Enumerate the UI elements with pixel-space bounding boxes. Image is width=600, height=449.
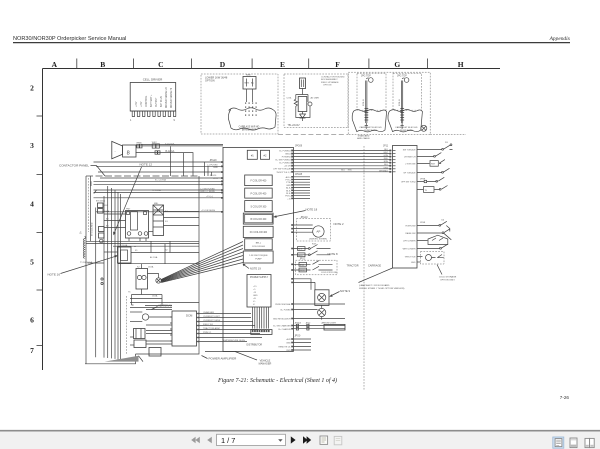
contactor panel leader line	[91, 166, 106, 176]
switch S8 row (raise)	[417, 229, 451, 240]
panel top nested edge with bevel	[91, 181, 97, 193]
toolbar next-view icon (disabled)	[334, 436, 342, 444]
terminal symbol right of option G	[421, 125, 427, 131]
relay block K1 (note 16 target)	[118, 247, 132, 263]
svg-text:FC COIL DR 400: FC COIL DR 400	[250, 232, 268, 234]
svg-text:GND: GND	[213, 167, 218, 169]
heater leader	[152, 307, 158, 310]
svg-text:GND: GND	[286, 185, 291, 187]
svg-text:T2 16GA: T2 16GA	[152, 189, 161, 192]
svg-text:GRN: GRN	[300, 270, 305, 272]
svg-text:OFF SW TORQ: OFF SW TORQ	[401, 181, 416, 183]
svg-text:B+ FUSED3: B+ FUSED3	[279, 163, 291, 165]
driver module A2	[261, 150, 270, 159]
svg-text:HORN SW: HORN SW	[405, 225, 415, 227]
carriage interface box JP11	[393, 146, 418, 269]
toolbar page-number box	[217, 434, 286, 445]
grid column ticks	[77, 59, 428, 69]
grid frame top line	[43, 68, 501, 70]
svg-text:POWER2: POWER2	[282, 157, 292, 159]
connector on lower horn wire	[155, 151, 160, 154]
harness wire labels near card	[152, 165, 219, 213]
svg-text:COIL: COIL	[287, 98, 293, 100]
svg-text:FIELD W1: FIELD W1	[203, 324, 214, 326]
carriage box internal pin labels (lower)	[403, 225, 417, 264]
heater resistor block 1	[134, 329, 146, 339]
cell driver pin name texts (rotated)	[136, 87, 173, 108]
terminal dots on bus	[101, 278, 103, 280]
power supply output wires down	[253, 307, 269, 329]
vehicle manager leader	[205, 352, 257, 361]
svg-text:B: B	[100, 60, 105, 69]
svg-text:OPTION: OPTION	[323, 85, 332, 87]
carriage box internal pin labels (upper)	[401, 149, 416, 183]
power supply module	[247, 275, 271, 308]
coil driver S	[245, 201, 273, 212]
option G cloud: carriage bumper assy	[388, 110, 422, 132]
svg-text:Figure 7-21: Schematic - Elec: Figure 7-21: Schematic - Electrical (She…	[217, 377, 337, 384]
svg-text:AND CABLE: AND CABLE	[357, 137, 370, 140]
note 18 leader arrow into coil driver B	[276, 211, 306, 217]
svg-text:16GA: 16GA	[152, 295, 158, 298]
option box: CONTACTOR HOUSED BOX ASSEMBLY (dashed)	[284, 74, 348, 128]
svg-text:GND REGULATOR: GND REGULATOR	[273, 317, 291, 320]
svg-text:BRN: BRN	[300, 265, 305, 267]
work light housing box	[315, 290, 329, 306]
toolbar previous-view icon	[320, 436, 328, 444]
coil driver B (double border)	[243, 213, 273, 224]
svg-text:OPTION: OPTION	[205, 80, 215, 83]
svg-text:ARROW LIGHT: ARROW LIGHT	[322, 321, 337, 324]
svg-text:+15 (+): +15 (+)	[206, 196, 213, 198]
heater motor circle	[142, 314, 148, 320]
toolbar prev-page button	[207, 437, 212, 443]
switch S4 row	[417, 168, 450, 172]
svg-text:BATTERY +: BATTERY +	[150, 94, 153, 107]
JPG08 pin squares	[291, 176, 293, 199]
svg-text:JPG10: JPG10	[210, 175, 217, 177]
cold storage leader	[437, 265, 442, 275]
svg-text:(SWIVEL STEER): (SWIVEL STEER)	[309, 239, 327, 241]
svg-text:+15 DR SENS: +15 DR SENS	[201, 210, 216, 212]
switch S1 row (sw torque)	[417, 145, 453, 149]
grid column letters	[52, 60, 464, 69]
outer dashed enclosure for MOL options F,G	[348, 72, 430, 135]
svg-text:KRB: KRB	[246, 75, 251, 77]
option G wire stem (double)	[402, 78, 405, 123]
svg-text:GND (+) SENS: GND (+) SENS	[200, 191, 215, 193]
svg-text:WHT/LOWER: WHT/LOWER	[403, 248, 416, 250]
switch S3 row with label box	[417, 160, 445, 164]
JPG09 pin squares on card edge	[291, 150, 293, 173]
svg-text:G: G	[394, 60, 400, 69]
wires down to work light	[293, 279, 315, 290]
panel-to-card harness wires	[94, 162, 224, 212]
svg-text:MANAGER: MANAGER	[259, 363, 272, 366]
svg-text:COLD STORAGE: COLD STORAGE	[439, 276, 457, 279]
svg-text:ORG: ORG	[383, 167, 388, 169]
svg-text:NOTE 19: NOTE 19	[250, 267, 261, 271]
option G switch circle	[404, 78, 409, 83]
svg-text:2H SWITCH: 2H SWITCH	[404, 156, 416, 158]
svg-text:JPG2: JPG2	[300, 259, 306, 261]
svg-text:16GA: 16GA	[148, 266, 154, 269]
svg-text:NEG: NEG	[245, 83, 250, 85]
left contactor terminals	[99, 227, 105, 232]
option F wire stem (double)	[366, 78, 369, 123]
svg-text:(LAMP ASST # R1 NO BOARD: (LAMP ASST # R1 NO BOARD	[359, 284, 390, 287]
svg-text:CELL DRIVER: CELL DRIVER	[143, 78, 163, 82]
svg-text:WHT: WHT	[383, 152, 388, 154]
svg-text:7: 7	[30, 346, 34, 355]
coil driver F	[245, 175, 273, 186]
option F switch circle	[369, 78, 374, 83]
JPG08 stub labels	[285, 176, 291, 201]
horn AP circle	[313, 226, 324, 237]
svg-text:3: 3	[30, 141, 34, 150]
contactor block PMT	[126, 211, 149, 239]
svg-text:HRN: HRN	[137, 143, 142, 145]
svg-text:600A: 600A	[104, 210, 110, 213]
svg-text:-: -	[115, 149, 116, 153]
svg-text:JPG20: JPG20	[210, 160, 218, 162]
JP11 pin squares at carriage box	[389, 150, 391, 173]
toolbar first-page button	[191, 437, 200, 443]
DCM output wires with labels	[197, 314, 263, 342]
svg-text:+72V: +72V	[136, 101, 138, 107]
relay block K2 with coils	[136, 269, 148, 290]
svg-text:B+ CHASSIS: B+ CHASSIS	[278, 328, 291, 331]
diode symbol in option box E	[300, 112, 306, 122]
svg-text:BLK: BLK	[298, 249, 303, 251]
wires KRB down to pins	[247, 89, 253, 102]
svg-text:B+ SW CHARGER: B+ SW CHARGER	[273, 325, 291, 328]
svg-text:F: F	[335, 60, 340, 69]
svg-text:NOTE 12: NOTE 12	[140, 163, 153, 167]
JP11 harness bundle tractor-to-carriage	[293, 151, 391, 172]
work light lamp L1	[318, 293, 326, 301]
gray harness wedge	[105, 356, 139, 362]
dashed option-area boundary under box E	[278, 133, 348, 135]
svg-text:(+) SW FUSED: (+) SW FUSED	[200, 188, 215, 190]
horn LS1 driver box	[123, 145, 136, 157]
svg-text:CARR ASST ELEV HD: CARR ASST ELEV HD	[359, 126, 382, 129]
heater area wires	[130, 299, 199, 346]
option F rotated text MOL B	[363, 99, 365, 106]
svg-text:WHT/BLK: WHT/BLK	[379, 170, 389, 172]
svg-text:AP: AP	[316, 230, 320, 234]
switch S5 row	[417, 177, 444, 181]
svg-text:F COIL DR 400: F COIL DR 400	[251, 181, 267, 183]
svg-text:PWM #1: PWM #1	[203, 332, 212, 334]
svg-text:GND: GND	[411, 262, 416, 264]
svg-text:THROTTLE 1,2: THROTTLE 1,2	[276, 172, 291, 174]
svg-text:OUTPUT: OUTPUT	[156, 97, 158, 107]
svg-text:CARR ASS W/R HD: CARR ASS W/R HD	[239, 126, 260, 129]
arrow light feed wires	[293, 326, 345, 329]
svg-text:WHT: WHT	[298, 255, 303, 257]
page-layout icon: single continuous (active, highlighted)	[553, 437, 564, 448]
coil driver BELL	[245, 239, 273, 250]
svg-text:BOX ASSEMBLY: BOX ASSEMBLY	[321, 78, 338, 81]
dashed service line in panel	[126, 296, 128, 354]
svg-text:BRN: BRN	[384, 161, 389, 163]
svg-text:+15V: +15V	[213, 178, 219, 180]
grid row ticks	[37, 116, 43, 346]
distributor output labels	[273, 303, 292, 331]
svg-text:RAISE SW: RAISE SW	[405, 232, 415, 235]
svg-text:HEATER/AN: HEATER/AN	[158, 305, 172, 308]
svg-text:TRACTION ARM: TRACTION ARM	[203, 327, 220, 330]
svg-text:SP TORQUE: SP TORQUE	[403, 172, 416, 174]
svg-text:CONTROL: CONTROL	[146, 95, 148, 107]
carriage box bottom-left leader	[359, 268, 393, 283]
svg-text:JPG09: JPG09	[295, 146, 303, 148]
label B+ vertical	[80, 230, 83, 234]
svg-text:RST: RST	[431, 164, 436, 166]
svg-text:SWIVEL STEER # TH HD OPTION VE: SWIVEL STEER # TH HD OPTION VERSION)	[359, 288, 405, 290]
svg-text:5: 5	[30, 258, 34, 267]
svg-text:BAT PLUS: BAT PLUS	[160, 96, 163, 107]
svg-text:7-26: 7-26	[560, 395, 570, 400]
note 16 leader arrow	[61, 256, 116, 273]
svg-text:2 STROKE: 2 STROKE	[405, 163, 416, 165]
toolbar top border	[0, 430, 600, 432]
svg-text:GRN: GRN	[384, 155, 389, 157]
svg-text:DISTRIBUTOR: DISTRIBUTOR	[247, 345, 263, 347]
option G rotated text MOL B	[399, 99, 401, 106]
svg-text:CONTACTOR HOUSED: CONTACTOR HOUSED	[321, 76, 345, 79]
svg-text:A: A	[52, 60, 58, 69]
svg-text:KST: KST	[312, 244, 317, 246]
svg-text:B+ FUSED2: B+ FUSED2	[279, 150, 291, 152]
throttle potentiometer	[417, 256, 423, 258]
svg-text:JPG10: JPG10	[301, 217, 309, 219]
svg-text:SW TORQUE: SW TORQUE	[403, 149, 416, 151]
heater wires to DCM	[145, 306, 172, 345]
svg-text:NOTE 18: NOTE 18	[306, 208, 318, 212]
toolbar page box dropdown caret	[278, 439, 282, 442]
swivel steer horn dashed box	[297, 219, 331, 242]
svg-text:BLK: BLK	[384, 149, 388, 151]
contactor panel inner dashed edge	[87, 178, 89, 232]
svg-text:JPG08: JPG08	[295, 174, 303, 176]
svg-text:LIFT SW TORQUE: LIFT SW TORQUE	[273, 169, 291, 171]
svg-text:BUMP ASST: BUMP ASST	[400, 129, 413, 132]
wedge to panel bottom tail	[139, 356, 144, 362]
toolbar next-page button	[291, 436, 296, 443]
vehicle manager card enclosure	[223, 147, 293, 351]
svg-text:AC: AC	[251, 82, 254, 85]
JP11 bundle mid labels	[341, 149, 389, 172]
note 19 leader arrow	[244, 265, 250, 269]
wire horn upper to card	[136, 145, 223, 147]
svg-text:TEMPERATURE SENS: TEMPERATURE SENS	[222, 339, 245, 342]
driver module A1	[247, 150, 257, 159]
svg-text:8: 8	[127, 151, 130, 157]
svg-text:BLU: BLU	[341, 170, 345, 172]
svg-text:JPG04: JPG04	[295, 322, 302, 324]
coil driver FC	[243, 226, 273, 237]
svg-text:1 / 7: 1 / 7	[221, 436, 235, 445]
tractor-carriage divider (dashed)	[363, 146, 365, 390]
svg-text:+15 DR: +15 DR	[284, 166, 292, 168]
svg-text:PGS+: PGS+	[285, 196, 291, 198]
arrow light assembly	[324, 324, 345, 330]
svg-text:4: 4	[30, 200, 34, 209]
contact element A1 CMR in option box E	[308, 99, 312, 110]
svg-text:PUMP: PUMP	[255, 258, 262, 260]
wire below K1	[118, 263, 200, 265]
option box E note text	[321, 76, 345, 87]
svg-text:PTS+: PTS+	[286, 180, 292, 182]
pin grid in option box D	[245, 103, 257, 116]
vertical bus wires in contactor panel	[96, 186, 121, 360]
svg-text:GND: GND	[253, 295, 258, 297]
svg-text:CARR ASST ELEV HD: CARR ASST ELEV HD	[395, 126, 418, 129]
svg-text:B+ FUSED: B+ FUSED	[281, 309, 292, 311]
toolbar background	[0, 431, 600, 449]
JPG08 stub wires	[293, 177, 310, 199]
svg-text:PTS-: PTS-	[286, 182, 291, 184]
option box: LOWER 1KW 36/48 OPTION (dashed)	[201, 74, 278, 134]
svg-text:GND: GND	[286, 342, 291, 344]
option F lower terminal	[365, 123, 368, 129]
switch S2 row	[417, 153, 441, 157]
distributor output wires	[293, 304, 345, 319]
horn connector HRN pair	[137, 144, 142, 148]
horizontal bus wires across panel	[86, 241, 199, 246]
svg-text:CARRIAGE: CARRIAGE	[368, 265, 381, 268]
svg-text:RED: RED	[384, 158, 389, 160]
option F pin ticks	[365, 109, 369, 121]
svg-text:E: E	[280, 60, 285, 69]
svg-text:A1 CMR: A1 CMR	[311, 97, 320, 100]
DCM left pin ticks	[170, 317, 172, 341]
svg-text:BUMP ASST: BUMP ASST	[364, 129, 377, 132]
cell driver module U1 body	[130, 83, 176, 112]
svg-text:T1 18-16GA: T1 18-16GA	[80, 261, 92, 264]
key switch row 1	[293, 245, 330, 249]
wires to bottom of option box E	[296, 108, 310, 117]
svg-text:COLD STOR ONL: COLD STOR ONL	[321, 272, 338, 274]
svg-text:C: C	[158, 60, 163, 69]
svg-text:MOL B: MOL B	[363, 99, 365, 106]
cold storage stub row 2	[293, 266, 332, 270]
svg-text:LIFT/LOWER: LIFT/LOWER	[403, 240, 416, 242]
rotated cable tag in panel	[91, 222, 94, 236]
cold storage pins	[291, 264, 293, 271]
svg-text:BT 16GA RED: BT 16GA RED	[91, 222, 94, 236]
connector WK2 pair on upper horn wire	[152, 144, 159, 148]
svg-text:THROTTLE: THROTTLE	[405, 256, 417, 258]
svg-text:JPG0: JPG0	[295, 336, 301, 338]
grid row numbers	[30, 84, 34, 356]
lamp L2	[318, 308, 326, 316]
svg-text:OPTION ONLY: OPTION ONLY	[440, 280, 455, 282]
svg-text:B+ 1-18GA: B+ 1-18GA	[155, 179, 166, 182]
rectifier block in option box E	[298, 97, 307, 112]
svg-text:NOTE 16: NOTE 16	[48, 273, 61, 277]
panel inner left edge line	[90, 176, 92, 241]
svg-text:REMOTE L/L: REMOTE L/L	[278, 346, 291, 348]
svg-text:DRIVER SENSE HI: DRIVER SENSE HI	[171, 88, 173, 108]
svg-text:JP11: JP11	[383, 146, 389, 148]
switch S9 row	[417, 244, 448, 248]
svg-text:+72V: +72V	[141, 101, 143, 107]
bottom-left junction box	[149, 348, 161, 357]
option box E circuit wires	[296, 89, 308, 100]
page-layout icon: single page	[570, 438, 577, 448]
wire horn second run to card	[141, 143, 223, 145]
svg-text:ALS+: ALS+	[286, 176, 292, 179]
svg-text:A1 2GA: A1 2GA	[150, 256, 158, 259]
key switch pins	[291, 248, 293, 256]
fan wires from hub to coil driver pins	[161, 242, 243, 283]
cold storage dashed box	[296, 260, 338, 275]
wire horn lower run	[136, 153, 193, 176]
svg-text:POWER SUPPLY: POWER SUPPLY	[250, 277, 269, 279]
svg-text:ALS-: ALS-	[286, 187, 291, 190]
svg-text:P COIL DR 400: P COIL DR 400	[250, 193, 267, 195]
option F cloud: carriage bumper assy	[352, 110, 386, 132]
heater resistor block 2	[134, 340, 146, 348]
note 12 leader arrow	[115, 167, 142, 233]
svg-text:NOTE 2: NOTE 2	[334, 222, 345, 226]
svg-text:NOTE 9: NOTE 9	[340, 289, 351, 293]
svg-text:2: 2	[30, 84, 34, 93]
svg-text:B+ SW FUSED2: B+ SW FUSED2	[275, 160, 291, 162]
cell driver connector pin comb	[130, 111, 175, 116]
svg-text:RED: RED	[348, 170, 353, 172]
svg-text:BELL: BELL	[256, 243, 262, 245]
resistor in option box E	[294, 99, 297, 108]
svg-text:JP12: JP12	[306, 322, 312, 324]
coil driver SW torque pump	[243, 251, 273, 263]
distributor connector strip	[251, 330, 272, 335]
carriage box left-edge pin ticks	[393, 151, 396, 172]
svg-text:MOL B: MOL B	[399, 99, 401, 106]
svg-text:BLU: BLU	[384, 164, 388, 166]
DCM module box	[172, 311, 197, 346]
contactor coil CMR in option box E	[300, 78, 306, 89]
JPG09 wire labels (left of pins)	[273, 150, 291, 173]
aux output rows	[293, 339, 311, 350]
harness pin squares at card left edge	[221, 161, 223, 213]
svg-text:DRIVER SENSE LO: DRIVER SENSE LO	[166, 87, 168, 108]
lift/lower control head	[417, 235, 448, 244]
svg-text:DCM: DCM	[186, 314, 193, 318]
panel interior misc labels	[106, 203, 168, 298]
svg-text:CURRENT LIMIT: CURRENT LIMIT	[203, 316, 221, 318]
svg-text:NOR30/NOR30P Orderpicker Servi: NOR30/NOR30P Orderpicker Service Manual	[13, 36, 126, 42]
svg-text:JPG TOP: JPG TOP	[397, 75, 407, 77]
note 9 leader arrow	[332, 292, 340, 296]
DCM wire pin squares	[198, 313, 200, 343]
wire from coil to panel interior	[88, 262, 105, 264]
switch S6 row with box	[417, 186, 447, 190]
svg-text:WK2: WK2	[152, 142, 158, 144]
svg-text:TRACTOR: TRACTOR	[347, 265, 359, 268]
svg-text:1.5F SW TORQUE: 1.5F SW TORQUE	[249, 255, 268, 257]
panel interior connection wires	[104, 212, 199, 306]
battery feed coil symbol on panel left edge	[83, 237, 85, 259]
contactor KRB in option box D	[243, 77, 256, 90]
connector JP12 on feed	[307, 324, 309, 330]
dashed extension at bottom right of enclosure	[430, 134, 466, 136]
DCM wire labels	[203, 311, 245, 342]
svg-text:PERFORM DIAL: PERFORM DIAL	[275, 303, 291, 306]
